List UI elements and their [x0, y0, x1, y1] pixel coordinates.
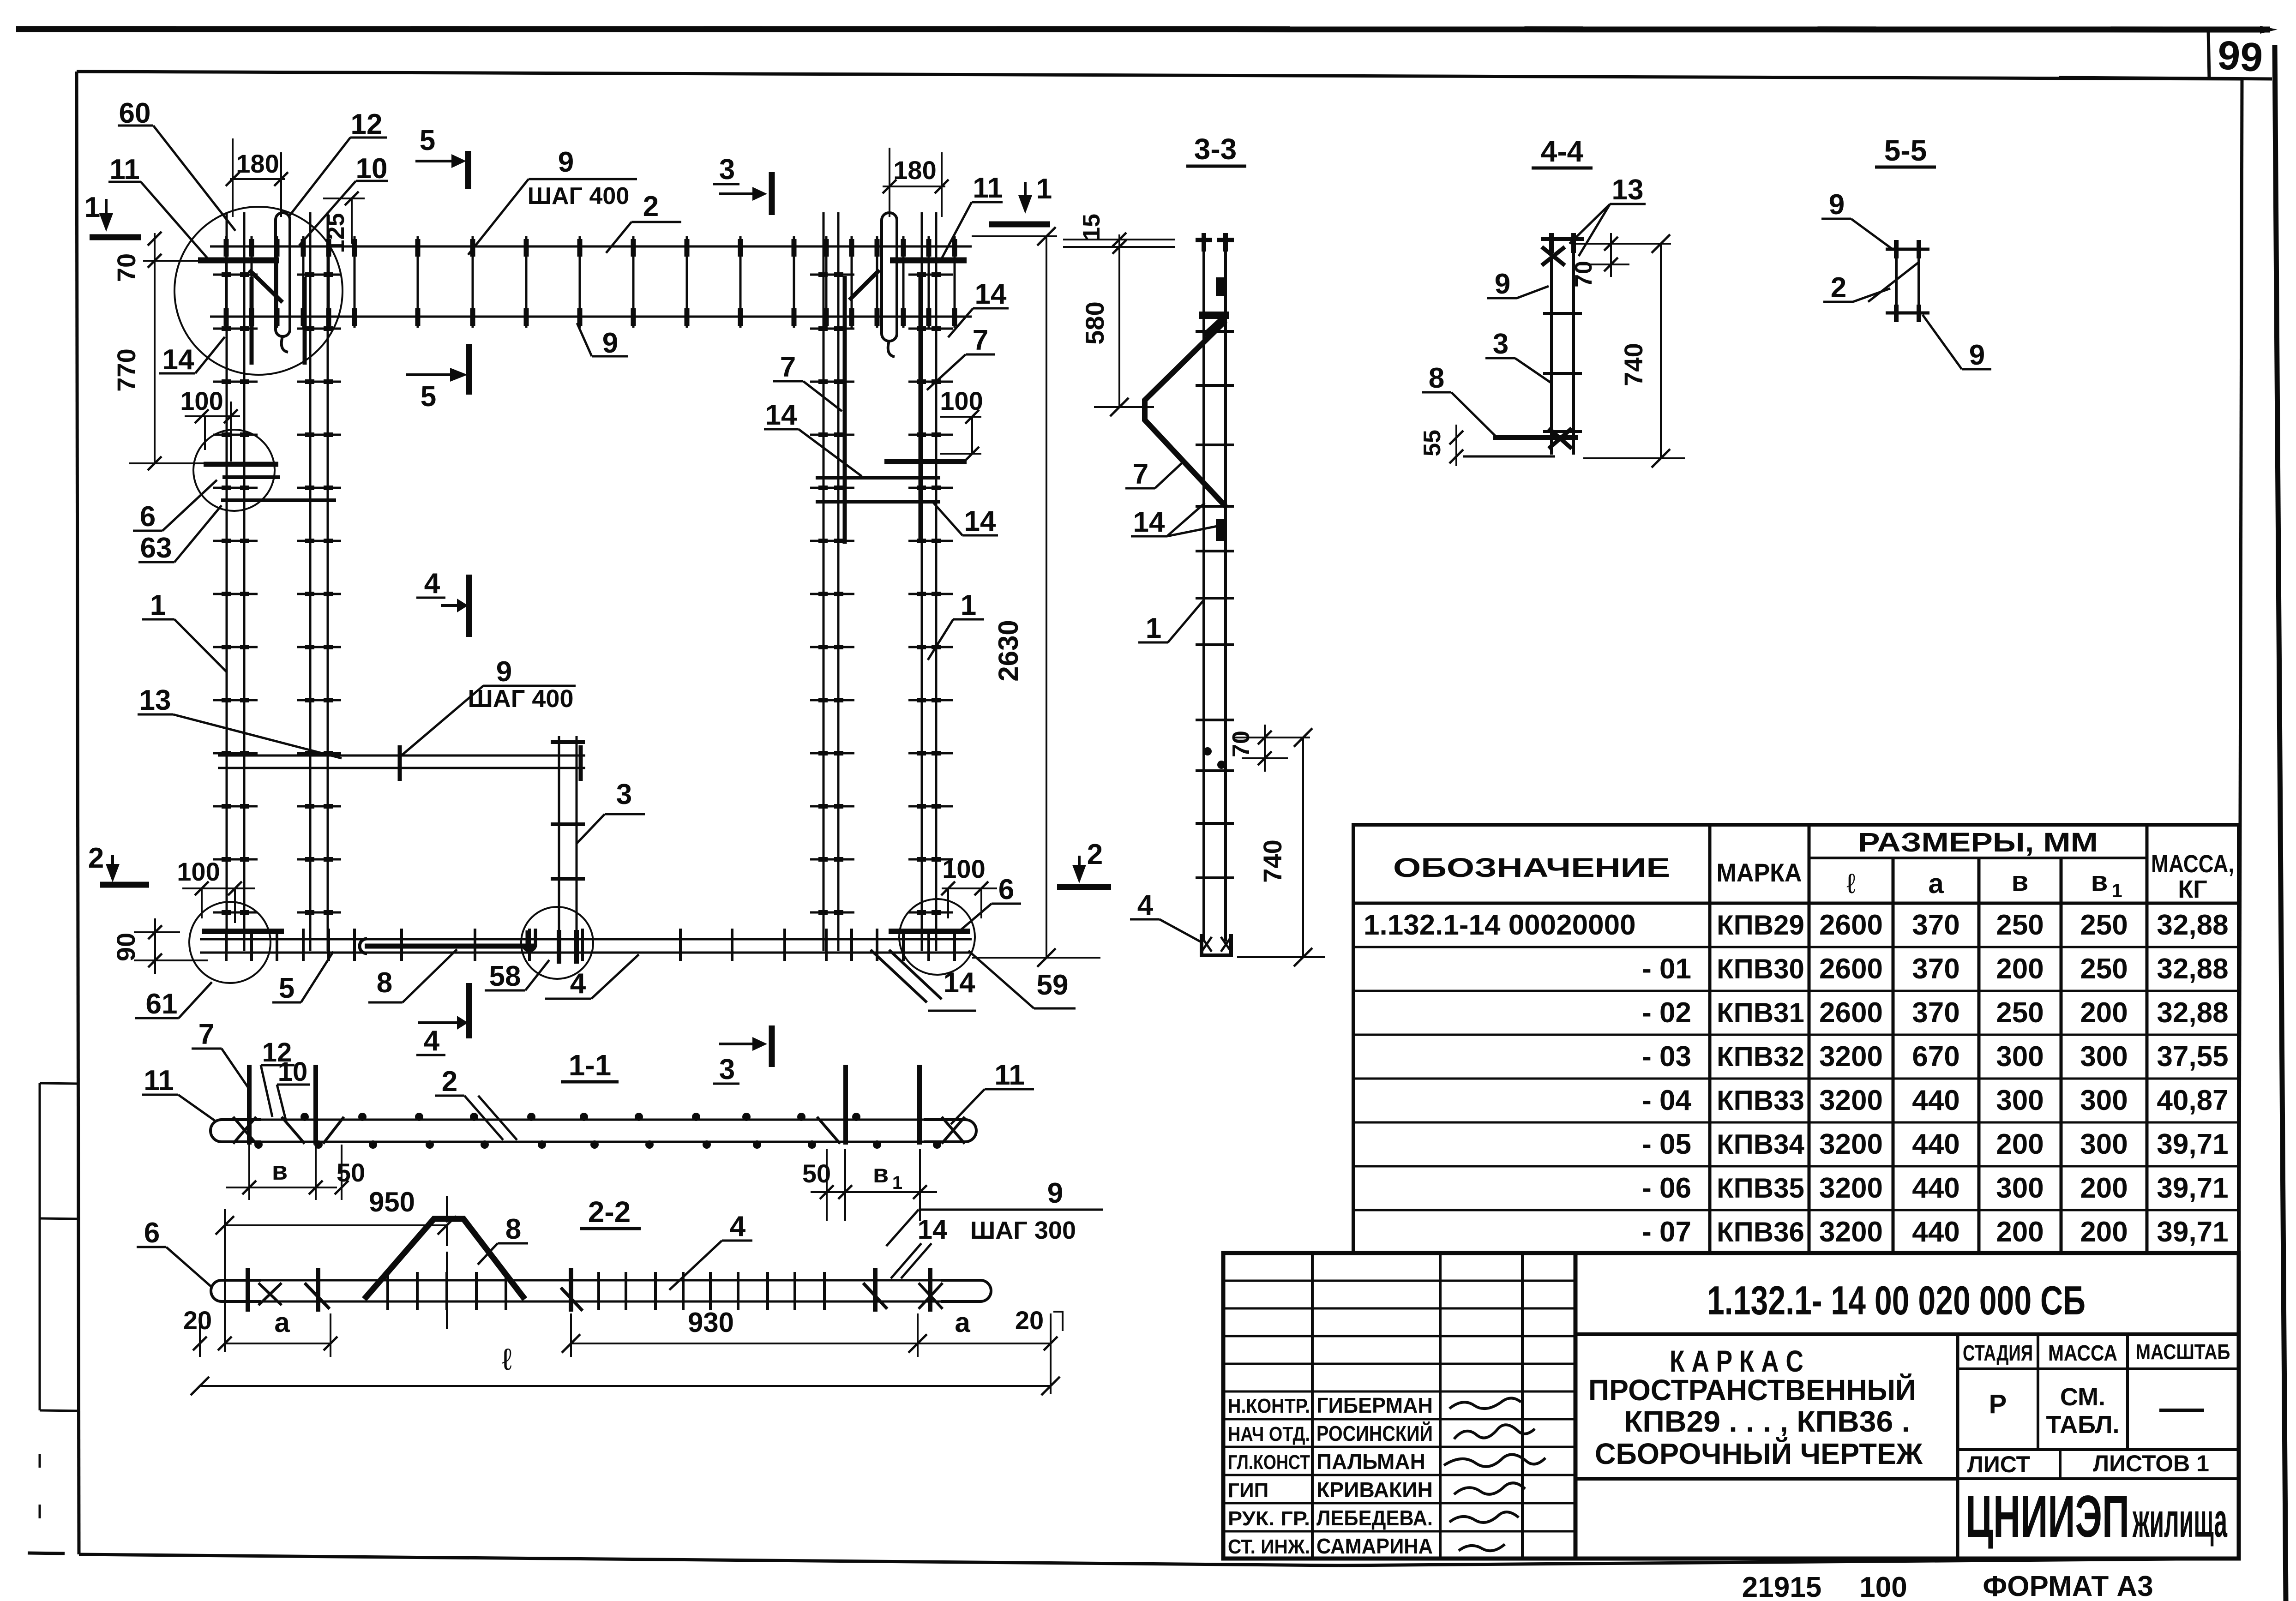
svg-text:14: 14 — [944, 967, 975, 999]
svg-text:100: 100 — [1859, 1571, 1907, 1601]
left mid weld bars (поз.6/63) — [204, 464, 336, 500]
svg-text:3-3: 3-3 — [1194, 132, 1237, 166]
svg-text:КРИВАКИН: КРИВАКИН — [1316, 1478, 1433, 1502]
svg-text:в: в — [873, 1159, 889, 1188]
detail circle bottom-right (узел 59) — [899, 899, 975, 975]
svg-text:ШАГ 300: ШАГ 300 — [970, 1217, 1076, 1244]
svg-text:в: в — [2091, 866, 2108, 897]
label 4 bottom circle with leader — [545, 954, 639, 1000]
svg-text:СМ.: СМ. — [2060, 1383, 2105, 1411]
svg-text:5-5: 5-5 — [1884, 134, 1927, 167]
section 1-1 band rails — [210, 1120, 976, 1142]
svg-text:250: 250 — [2080, 953, 2128, 985]
label 11 section 1-1 left — [142, 1065, 216, 1121]
svg-text:ПАЛЬМАН: ПАЛЬМАН — [1316, 1450, 1425, 1474]
label 7 right with leader — [927, 324, 995, 390]
svg-text:4: 4 — [570, 968, 586, 1000]
label 13 section 4-4 — [1569, 174, 1646, 256]
dimension 100 top-left — [180, 386, 240, 462]
svg-text:180: 180 — [893, 156, 936, 185]
label 10 section 1-1 — [277, 1057, 310, 1121]
label 9 шаг 400 top with leader — [468, 146, 637, 255]
label 11 section 1-1 right — [951, 1059, 1034, 1124]
dimension 180 left — [226, 138, 288, 217]
svg-text:32,88: 32,88 — [2157, 997, 2228, 1029]
svg-text:61: 61 — [146, 988, 178, 1020]
svg-text:КПВ31: КПВ31 — [1717, 997, 1804, 1028]
dimension 2630 — [972, 227, 1100, 967]
svg-text:Р: Р — [1989, 1389, 2007, 1419]
section 2-2 stirrup ticks — [388, 1272, 824, 1310]
section 3-3 bent bar (поз.7) — [1145, 315, 1226, 506]
svg-text:- 03: - 03 — [1642, 1041, 1691, 1073]
svg-text:5: 5 — [279, 972, 295, 1004]
section 5-5 box bars — [1886, 240, 1929, 322]
svg-text:1: 1 — [150, 589, 166, 621]
label 58 with leader — [485, 960, 549, 992]
svg-text:ГИП: ГИП — [1228, 1479, 1268, 1502]
svg-text:9: 9 — [496, 656, 512, 688]
dimension 770 left — [112, 261, 204, 470]
svg-text:440: 440 — [1912, 1085, 1959, 1116]
svg-text:9: 9 — [1495, 268, 1510, 300]
dimension 20 section 2-2 left — [183, 1306, 212, 1357]
svg-text:3200: 3200 — [1819, 1085, 1883, 1116]
label 3 section 4-4 — [1485, 328, 1551, 383]
svg-text:1: 1 — [1146, 612, 1161, 644]
svg-text:МАРКА: МАРКА — [1717, 858, 1802, 887]
label 63 with leader — [138, 505, 222, 564]
svg-text:2630: 2630 — [993, 620, 1024, 681]
title text КАРКАС — [1575, 1344, 1958, 1479]
bottom margin codes — [1742, 1571, 2153, 1601]
svg-text:К А Р К А С: К А Р К А С — [1670, 1344, 1803, 1378]
svg-text:5: 5 — [420, 125, 435, 156]
label 60 with leader — [118, 97, 235, 231]
section 4-4 rungs — [1543, 313, 1582, 432]
label 7 left of right column — [773, 351, 842, 411]
inner vertical ladder (поз.3) — [559, 736, 577, 962]
svg-text:МАССА,: МАССА, — [2151, 850, 2234, 878]
section mark 2 bottom-right — [1057, 839, 1111, 887]
svg-text:250: 250 — [1996, 997, 2044, 1029]
svg-text:НАЧ ОТД.: НАЧ ОТД. — [1228, 1423, 1310, 1445]
label 14 bottom-right diagonal — [928, 967, 976, 1011]
svg-text:10: 10 — [278, 1057, 308, 1087]
title block designation cell — [1575, 1253, 2238, 1559]
svg-text:32,88: 32,88 — [2157, 953, 2228, 985]
svg-text:440: 440 — [1912, 1128, 1959, 1160]
svg-text:ЛЕБЕДЕВА.: ЛЕБЕДЕВА. — [1316, 1506, 1433, 1530]
section mark 3 top — [713, 154, 772, 215]
svg-text:РОСИНСКИЙ: РОСИНСКИЙ — [1316, 1421, 1433, 1445]
svg-text:4: 4 — [1137, 889, 1154, 921]
svg-text:100: 100 — [942, 854, 985, 883]
svg-text:8: 8 — [505, 1213, 521, 1245]
svg-text:6: 6 — [140, 501, 156, 533]
svg-text:100: 100 — [177, 857, 220, 886]
svg-text:440: 440 — [1912, 1216, 1959, 1248]
bottom-left anchor bar (поз.61) — [202, 929, 284, 934]
label 9 section 5-5 bottom — [1923, 315, 1991, 371]
svg-text:740: 740 — [1258, 839, 1287, 882]
svg-text:КПВ35: КПВ35 — [1717, 1173, 1804, 1204]
middle tie bars (поз.13) rails — [218, 756, 585, 768]
svg-text:11: 11 — [994, 1059, 1025, 1091]
dimension 580 section 3-3 — [1080, 234, 1154, 416]
label 13 with leader — [138, 684, 342, 758]
label 7 section 3-3 — [1125, 458, 1184, 490]
section mark 5 bottom — [406, 344, 469, 413]
label 8 section 4-4 — [1422, 362, 1496, 436]
svg-text:1: 1 — [2111, 880, 2122, 901]
dimension 740 section 3-3 — [1237, 728, 1325, 966]
svg-text:- 01: - 01 — [1642, 953, 1691, 985]
svg-text:8: 8 — [1429, 362, 1444, 394]
svg-text:200: 200 — [1996, 1216, 2044, 1248]
section title 2-2 — [580, 1195, 641, 1229]
stage mass scale header cells — [1958, 1334, 2238, 1559]
svg-text:КПВ29: КПВ29 — [1717, 910, 1804, 941]
svg-text:1.132.1- 14 00 020 000 СБ: 1.132.1- 14 00 020 000 СБ — [1707, 1277, 2086, 1323]
svg-text:a: a — [1928, 868, 1944, 899]
svg-text:9: 9 — [602, 327, 618, 359]
section title 4-4 — [1532, 135, 1593, 168]
label 14 section 2-2 — [886, 1210, 947, 1278]
dimension в section 1-1 — [226, 1145, 337, 1200]
svg-text:КПВ32: КПВ32 — [1717, 1041, 1804, 1072]
svg-text:300: 300 — [2080, 1128, 2128, 1160]
svg-text:2600: 2600 — [1819, 997, 1883, 1029]
label 9 section 5-5 top — [1821, 189, 1893, 249]
svg-text:580: 580 — [1080, 301, 1109, 344]
svg-text:250: 250 — [2080, 909, 2128, 941]
dimension 90 bottom-left — [111, 918, 208, 974]
dimension 50 section 1-1 left — [335, 1145, 365, 1200]
middle tie stirrups (поз.9 шаг 400) — [400, 745, 581, 781]
svg-text:КПВ33: КПВ33 — [1717, 1085, 1804, 1116]
title block outer frame — [1223, 1253, 2239, 1559]
svg-text:2600: 2600 — [1819, 909, 1883, 941]
section 3-3 rungs — [1196, 331, 1234, 878]
label 11 top-right with leader — [942, 172, 1003, 258]
label 6 bottom-right with leader — [960, 874, 1021, 930]
top-left stub bars (поз.14) — [252, 277, 305, 365]
svg-text:370: 370 — [1912, 909, 1959, 941]
svg-text:200: 200 — [2080, 1172, 2128, 1204]
section 4-4 ladder bars — [1551, 241, 1574, 455]
svg-text:740: 740 — [1619, 343, 1648, 386]
label 61 with leader — [135, 982, 212, 1020]
section 3-3 ladder bars — [1204, 242, 1226, 941]
label 2 section 5-5 — [1823, 272, 1890, 304]
svg-text:300: 300 — [2080, 1085, 2128, 1116]
dimension 100 bottom-left — [177, 857, 255, 923]
svg-text:7: 7 — [1133, 458, 1148, 490]
svg-text:99: 99 — [2216, 32, 2265, 81]
svg-text:300: 300 — [1996, 1172, 2044, 1204]
label 14 right-top with leader — [948, 278, 1009, 337]
svg-text:39,71: 39,71 — [2157, 1216, 2228, 1248]
top-right stub bars (поз.14) — [845, 276, 920, 544]
bottom chord stirrup ticks — [226, 929, 955, 961]
svg-text:59: 59 — [1037, 969, 1069, 1001]
label 4 section 2-2 — [669, 1211, 752, 1290]
section 4-4 top weld marks (поз.13) — [1541, 233, 1584, 265]
svg-text:2: 2 — [1831, 272, 1846, 304]
inner vertical ladder rungs — [551, 742, 585, 964]
svg-text:3: 3 — [616, 779, 632, 810]
table headers — [1393, 827, 2234, 903]
svg-text:СТ. ИНЖ.: СТ. ИНЖ. — [1228, 1535, 1310, 1558]
svg-text:200: 200 — [1996, 1128, 2044, 1160]
section 1-1 vertical bars — [249, 1065, 920, 1145]
section mark 4 bottom — [416, 983, 469, 1057]
top chord bars (поз.2) rails — [210, 246, 972, 317]
svg-text:2: 2 — [88, 842, 104, 874]
svg-text:2: 2 — [643, 191, 659, 222]
svg-text:7: 7 — [198, 1019, 214, 1050]
svg-text:КГ: КГ — [2178, 875, 2207, 903]
label 3 with leader — [577, 779, 645, 844]
section title 1-1 — [561, 1049, 619, 1082]
label 59 with leader — [968, 951, 1076, 1008]
svg-text:13: 13 — [139, 684, 171, 716]
label 1 left column — [142, 589, 227, 672]
svg-text:4-4: 4-4 — [1541, 135, 1584, 168]
label 2 section 1-1 — [435, 1066, 517, 1140]
svg-text:1: 1 — [892, 1173, 902, 1193]
svg-text:8: 8 — [377, 967, 392, 999]
signature rows text — [1228, 1393, 1433, 1558]
svg-text:ШАГ 400: ШАГ 400 — [468, 685, 574, 713]
svg-text:3200: 3200 — [1819, 1216, 1883, 1248]
svg-text:МАССА: МАССА — [2048, 1341, 2117, 1366]
right inner column bars (поз.1) — [823, 212, 838, 951]
section mark 1 top-right — [989, 173, 1052, 224]
svg-text:2-2: 2-2 — [588, 1195, 631, 1229]
label 1 section 3-3 — [1138, 600, 1204, 644]
svg-text:2: 2 — [1087, 839, 1103, 870]
svg-text:4: 4 — [730, 1211, 746, 1242]
label 7 section 1-1 — [192, 1019, 249, 1089]
section 3-3 bottom bracket (поз.4) — [1202, 934, 1231, 955]
label 14 left column — [159, 337, 225, 376]
svg-text:21915: 21915 — [1742, 1571, 1821, 1601]
svg-text:1: 1 — [1036, 173, 1052, 205]
page number box 99 — [2059, 30, 2272, 80]
svg-text:ЦНИИЭП: ЦНИИЭП — [1965, 1484, 2129, 1550]
svg-text:ℓ: ℓ — [502, 1342, 511, 1376]
svg-text:4: 4 — [424, 568, 440, 600]
dimension 100 bottom-right — [941, 854, 997, 918]
label 9 шаг 400 middle — [400, 656, 576, 757]
svg-text:14: 14 — [1133, 506, 1165, 538]
svg-text:950: 950 — [369, 1187, 415, 1217]
svg-text:7: 7 — [973, 324, 988, 356]
svg-text:САМАРИНА: САМАРИНА — [1316, 1534, 1433, 1558]
dimension 100 right column — [940, 386, 983, 461]
detail circle bottom-left (узел 61) — [189, 902, 270, 983]
signature squiggles — [1444, 1398, 1545, 1551]
bottom chord bars rails — [200, 939, 972, 953]
svg-text:300: 300 — [1996, 1041, 2044, 1073]
svg-text:a: a — [955, 1307, 970, 1338]
svg-text:55: 55 — [1419, 430, 1446, 456]
dimension 930 — [562, 1307, 927, 1357]
svg-text:9: 9 — [1829, 189, 1845, 221]
svg-text:1-1: 1-1 — [569, 1049, 612, 1082]
svg-text:70: 70 — [1228, 731, 1255, 757]
svg-text:ШАГ 400: ШАГ 400 — [528, 183, 630, 210]
svg-text:300: 300 — [2080, 1041, 2128, 1073]
svg-text:11: 11 — [144, 1065, 174, 1097]
section title 5-5 — [1875, 134, 1936, 167]
top-left anchor bar (поз.11) — [198, 260, 282, 302]
svg-text:930: 930 — [688, 1307, 734, 1338]
svg-text:КПВ29 . . . , КПВ36 .: КПВ29 . . . , КПВ36 . — [1624, 1405, 1910, 1438]
лист / листов row — [1958, 1450, 2238, 1479]
dimension a section 2-2 left — [218, 1307, 337, 1357]
top chord stirrup rungs (поз.9) — [226, 236, 955, 328]
right column stirrup rungs — [810, 275, 953, 912]
svg-text:Н.КОНТР.: Н.КОНТР. — [1228, 1395, 1310, 1417]
left inner column bars (поз.1) — [310, 212, 328, 951]
svg-text:ГИБЕРМАН: ГИБЕРМАН — [1316, 1393, 1433, 1417]
svg-text:63: 63 — [140, 532, 172, 564]
svg-text:КПВ34: КПВ34 — [1717, 1129, 1804, 1160]
svg-text:ГЛ.КОНСТ: ГЛ.КОНСТ — [1228, 1451, 1310, 1474]
svg-text:7: 7 — [780, 351, 796, 383]
svg-text:1.132.1-14 00020000: 1.132.1-14 00020000 — [1364, 909, 1636, 941]
dimension 20 section 2-2 right — [1015, 1306, 1063, 1357]
svg-text:14: 14 — [918, 1215, 948, 1245]
svg-text:- 04: - 04 — [1642, 1085, 1691, 1116]
svg-text:11: 11 — [973, 172, 1003, 204]
label 10 with leader — [299, 153, 388, 246]
bottom bent bar (поз.8) with hook — [360, 929, 535, 953]
detail circle bottom-mid (узел 4) — [521, 907, 593, 979]
left column stirrup rungs — [213, 275, 341, 912]
svg-text:200: 200 — [1996, 953, 2044, 985]
section 2-2 centre line — [445, 1196, 448, 1329]
svg-text:ℓ: ℓ — [1846, 868, 1855, 899]
svg-text:- 02: - 02 — [1642, 997, 1691, 1029]
section 2-2 vertical bars with welds — [248, 1268, 943, 1312]
label 9 below top chord — [577, 323, 628, 359]
table rows data — [1364, 909, 2229, 1248]
svg-text:5: 5 — [421, 381, 436, 413]
svg-text:- 05: - 05 — [1642, 1128, 1691, 1160]
label 12 with leader — [289, 108, 387, 217]
label 2 top with leader — [606, 191, 681, 253]
section 5-5 diagonal bar (поз.2) — [1868, 262, 1919, 302]
label 6 left with leader — [133, 480, 217, 533]
section mark 4 upper — [416, 568, 469, 637]
svg-text:39,71: 39,71 — [2157, 1128, 2228, 1160]
section 3-3 top end ticks — [1196, 233, 1234, 252]
svg-text:15: 15 — [1078, 214, 1105, 240]
section 1-1 weld diagonals — [233, 1117, 965, 1144]
svg-text:40,87: 40,87 — [2157, 1085, 2228, 1116]
svg-text:58: 58 — [489, 960, 521, 992]
svg-text:90: 90 — [111, 933, 140, 961]
right outer column bars (поз.1) — [922, 212, 936, 951]
svg-text:12: 12 — [351, 108, 383, 140]
dimension 125 — [323, 192, 365, 253]
svg-text:180: 180 — [236, 149, 279, 178]
svg-text:2600: 2600 — [1819, 953, 1883, 985]
label 11 top-left with leader — [108, 154, 208, 258]
detail circle mid-left (узел 6/63) — [193, 430, 275, 511]
left outer column bars (поз.1) — [227, 212, 244, 951]
svg-text:- 07: - 07 — [1642, 1216, 1691, 1248]
dimension 15 section 3-3 — [1063, 214, 1175, 254]
svg-text:14: 14 — [162, 344, 194, 376]
svg-text:ОБОЗНАЧЕНИЕ: ОБОЗНАЧЕНИЕ — [1393, 853, 1670, 883]
dimension 740 section 4-4 — [1583, 234, 1685, 468]
label 4 section 3-3 — [1130, 889, 1200, 941]
svg-text:1: 1 — [84, 192, 100, 223]
svg-text:a: a — [274, 1307, 290, 1338]
dimension в1 section 1-1 — [845, 1149, 927, 1221]
section mark 1 top-left — [84, 192, 141, 237]
svg-text:9: 9 — [558, 146, 574, 178]
svg-text:20: 20 — [1015, 1306, 1044, 1335]
label 9 section 4-4 — [1487, 268, 1549, 300]
dimension l overall section 2-2 — [191, 1342, 1060, 1395]
svg-text:300: 300 — [1996, 1085, 2044, 1116]
svg-text:14: 14 — [975, 278, 1007, 310]
parts table frame — [1353, 825, 2239, 1253]
dimension 180 right — [883, 148, 949, 217]
label 8 section 2-2 — [478, 1213, 528, 1265]
svg-text:370: 370 — [1912, 953, 1959, 985]
svg-text:14: 14 — [964, 505, 996, 537]
bottom-right bent bars (поз.14) — [871, 950, 942, 1002]
left margin column boxes — [28, 1083, 78, 1553]
svg-text:14: 14 — [765, 399, 797, 431]
section 4-4 bottom bar (поз.8) — [1463, 428, 1578, 456]
top margin thick line — [16, 26, 2278, 34]
section 1-1 longitudinal bar dots — [254, 1113, 941, 1149]
label 14 left of right column — [764, 399, 862, 476]
section mark 2 bottom-left — [88, 842, 149, 885]
svg-text:13: 13 — [1612, 174, 1644, 206]
svg-text:9: 9 — [1969, 339, 1985, 371]
svg-text:ЛИСТОВ 1: ЛИСТОВ 1 — [2093, 1451, 2209, 1476]
svg-text:200: 200 — [2080, 1216, 2128, 1248]
svg-text:70: 70 — [112, 253, 141, 282]
svg-text:МАСШТАБ: МАСШТАБ — [2136, 1340, 2230, 1364]
dimension 70 section 4-4 — [1570, 233, 1671, 288]
svg-text:3200: 3200 — [1819, 1172, 1883, 1204]
organisation logo ЦНИИЭПжилища — [1965, 1484, 2228, 1550]
svg-text:КПВ36: КПВ36 — [1717, 1217, 1804, 1247]
svg-text:жилища: жилища — [2133, 1494, 2228, 1547]
label 9 шаг 300 section 2-2 — [919, 1177, 1103, 1244]
svg-text:ПРОСТРАНСТВЕННЫЙ: ПРОСТРАНСТВЕННЫЙ — [1588, 1373, 1916, 1407]
svg-text:1: 1 — [961, 589, 976, 621]
section mark 5 top — [415, 125, 468, 189]
svg-text:32,88: 32,88 — [2157, 909, 2228, 941]
svg-text:- 06: - 06 — [1642, 1172, 1691, 1204]
dimension 70 section 3-3 — [1228, 725, 1310, 772]
section 3-3 weld blobs (поз.14) — [1199, 277, 1229, 769]
label 14 bottom-right column — [932, 502, 998, 537]
detail circle top-left (узел 60) — [174, 207, 343, 375]
svg-text:6: 6 — [144, 1217, 160, 1249]
